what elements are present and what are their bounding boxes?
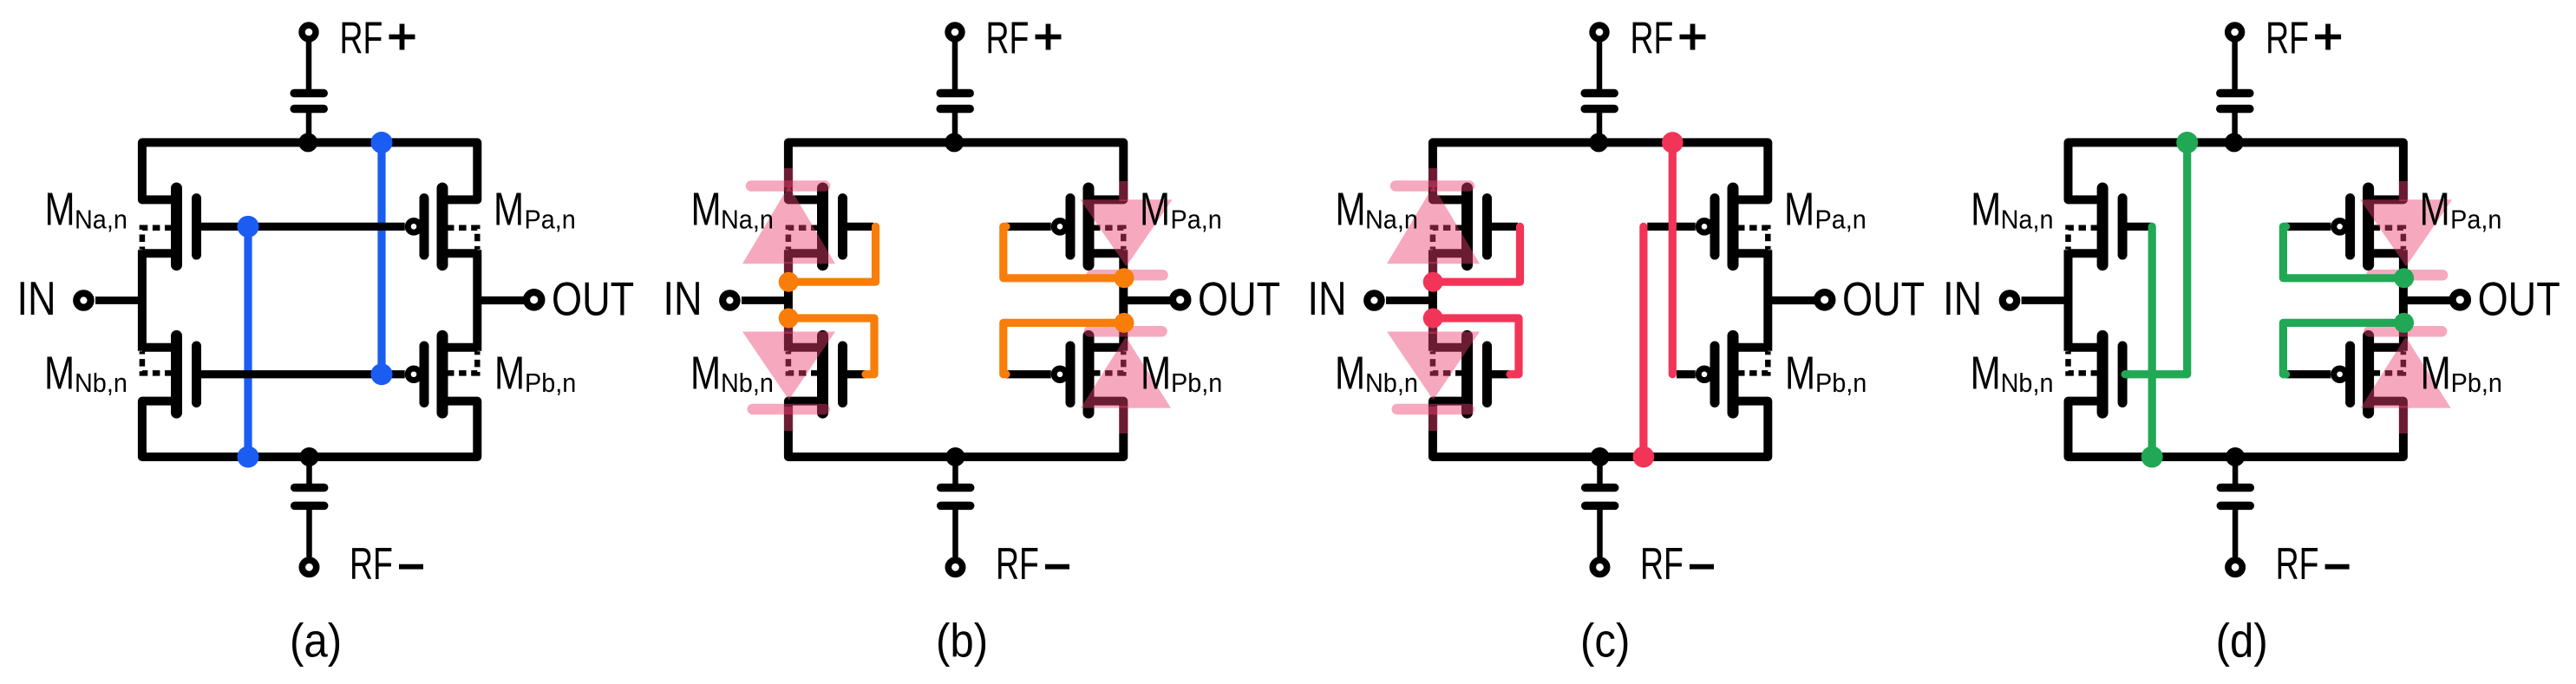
svg-text:RF: RF [350, 538, 393, 590]
svg-text:Pb,n: Pb,n [1171, 368, 1222, 398]
transistor M_Pa,n (PMOS) [2366, 195, 2403, 204]
terminal IN circle [2003, 293, 2017, 307]
capacitor C_RF- bottom lead [952, 510, 958, 557]
svg-text:OUT: OUT [1842, 271, 1925, 325]
capacitor C_RF- bottom lead [306, 510, 312, 557]
diode overlay bar on M_Pa,n [2371, 270, 2442, 281]
node dot red: IN lower [1423, 309, 1443, 329]
diode overlay lead (anode) on M_Na,n [784, 262, 794, 279]
capacitor C_RF- top lead [952, 461, 958, 485]
terminal RF- circle [2228, 560, 2242, 574]
label RF- minus sign [1690, 564, 1714, 570]
diode overlay lead (anode) on M_Pb,n [2399, 406, 2409, 433]
diode overlay bar on M_Na,n [751, 180, 825, 192]
capacitor C_RF+ bottom lead [1597, 113, 1603, 140]
terminal RF- circle [1592, 560, 1606, 574]
diode overlay on M_Nb,n (junction diode, pink) [742, 332, 835, 401]
panel (a) group [17, 12, 635, 668]
wire orange: M_Pb,n gate to OUT node [1004, 322, 1124, 374]
svg-text:RF: RF [986, 12, 1030, 63]
wire left branch middle (Na source to Nb drain through IN node) [138, 250, 147, 350]
wire bottom section (left wire, RF- rail, right wire) [788, 401, 1123, 457]
svg-text:M: M [1971, 184, 2001, 236]
transistor M_Nb,n (NMOS) [788, 343, 826, 352]
wire OUT lead [1120, 296, 1171, 304]
svg-text:RF: RF [996, 538, 1039, 590]
diode overlay lead (anode) on M_Pb,n [1119, 406, 1128, 433]
svg-text:OUT: OUT [2478, 271, 2560, 325]
transistor M_Pa,n (PMOS) [1730, 195, 1768, 204]
diode overlay bar on M_Pb,n [1089, 326, 1162, 337]
node dot blue: RF- rail [238, 446, 259, 468]
capacitor C_RF- plate 2 [1585, 502, 1615, 511]
wire left branch middle (Na source to Nb drain through IN node) [1429, 250, 1437, 350]
diode overlay on M_Pa,n (junction diode, pink) [2360, 199, 2452, 266]
diode overlay lead (anode) on M_Nb,n [1429, 315, 1438, 334]
svg-text:M: M [494, 184, 524, 236]
svg-text:Na,n: Na,n [2001, 205, 2054, 235]
node dot orange: OUT lower [1115, 313, 1134, 333]
capacitor C_RF+ plate 2 [294, 105, 324, 114]
junction dot on RF+ rail [1589, 133, 1608, 152]
label RF- minus sign [2325, 564, 2350, 570]
diode overlay lead (anode) on M_Nb,n [784, 315, 794, 334]
capacitor C_RF+ top lead [2232, 35, 2238, 90]
wire top section (left wire, RF+ rail, right wire) [788, 142, 1123, 199]
capacitor C_RF- top lead [306, 461, 312, 485]
wire left branch middle (Na source to Nb drain through IN node) [2064, 250, 2073, 350]
transistor M_Nb,n (NMOS) [142, 343, 180, 352]
node dot blue: gate line Nb/Pb [371, 363, 393, 385]
transistor M_Na,n (NMOS) [1433, 195, 1470, 204]
capacitor C_RF+ top lead [952, 35, 958, 90]
transistor M_Nb,n (NMOS) [2069, 343, 2106, 352]
node dot orange: IN lower [779, 309, 799, 329]
wire green: M_Na,n gate to RF- rail [2148, 226, 2156, 457]
diode overlay lead (anode) on M_Pa,n [2399, 181, 2409, 201]
svg-text:M: M [2420, 184, 2450, 236]
svg-text:Nb,n: Nb,n [721, 368, 774, 398]
wire left branch middle (Na source to Nb drain through IN node) [784, 250, 793, 350]
svg-text:Na,n: Na,n [75, 205, 127, 235]
terminal RF+ circle [2228, 25, 2242, 39]
svg-text:Nb,n: Nb,n [1365, 368, 1418, 398]
node dot red: RF- rail [1633, 446, 1655, 468]
svg-text:(d): (d) [2216, 615, 2268, 668]
terminal OUT circle [2453, 292, 2468, 307]
node dot blue: RF+ rail [371, 132, 393, 153]
capacitor C_RF+ plate 1 [294, 89, 324, 98]
capacitor C_RF+ plate 1 [2220, 89, 2250, 98]
svg-text:M: M [44, 347, 75, 399]
terminal RF+ circle [302, 25, 316, 39]
capacitor C_RF+ top lead [1597, 35, 1603, 90]
capacitor C_RF- plate 2 [295, 502, 324, 511]
svg-text:M: M [1335, 347, 1365, 399]
terminal OUT circle [1817, 292, 1832, 307]
svg-text:RF: RF [340, 12, 383, 63]
svg-text:M: M [1140, 184, 1170, 236]
svg-text:M: M [1336, 184, 1366, 236]
terminal RF- circle [302, 560, 316, 574]
terminal OUT circle [526, 292, 541, 307]
junction dot on RF- rail [2226, 447, 2245, 466]
wire orange: M_Pa,n gate to OUT node [1004, 226, 1124, 277]
diode overlay bar on M_Nb,n [753, 404, 825, 415]
svg-text:Na,n: Na,n [721, 205, 774, 235]
wire OUT lead [474, 296, 525, 304]
node dot green: RF+ rail [2176, 132, 2198, 153]
svg-text:RF: RF [2276, 538, 2319, 590]
capacitor C_RF- plate 2 [941, 502, 971, 511]
svg-text:Pa,n: Pa,n [2450, 205, 2501, 235]
wire IN lead [95, 296, 146, 304]
diode overlay on M_Nb,n (junction diode, pink) [1387, 332, 1480, 401]
wire right branch middle (Pa source to Pb drain through OUT node) [1119, 250, 1128, 350]
transistor M_Pa,n (PMOS) [1086, 195, 1123, 204]
diode overlay on M_Pb,n (junction diode, pink) [1081, 337, 1171, 408]
svg-text:M: M [1785, 347, 1815, 399]
capacitor C_RF+ plate 1 [1585, 89, 1614, 98]
panel (d) group [1943, 12, 2560, 668]
svg-text:IN: IN [1943, 270, 1982, 324]
svg-text:RF: RF [2265, 12, 2309, 63]
svg-text:IN: IN [17, 270, 56, 324]
transistor M_Na,n (NMOS) [2069, 195, 2106, 204]
capacitor C_RF+ bottom lead [2232, 113, 2238, 140]
wire right branch middle (Pa source to Pb drain through OUT node) [1763, 250, 1772, 350]
svg-text:M: M [2421, 347, 2451, 399]
svg-text:Pb,n: Pb,n [1815, 368, 1867, 398]
svg-text:Pa,n: Pa,n [525, 205, 576, 235]
diode overlay bar on M_Na,n [1396, 180, 1469, 192]
wire OUT lead [2400, 296, 2451, 304]
capacitor C_RF- top lead [1597, 461, 1603, 485]
node dot orange: IN upper [779, 272, 799, 292]
svg-text:M: M [1971, 347, 2001, 399]
diode overlay on M_Pb,n (junction diode, pink) [2361, 337, 2451, 408]
label RF- minus sign [399, 564, 423, 570]
label RF- minus sign [1045, 564, 1069, 570]
node dot orange: OUT upper [1115, 268, 1134, 288]
capacitor C_RF+ plate 2 [940, 105, 970, 114]
svg-text:Nb,n: Nb,n [75, 368, 127, 398]
svg-text:Pb,n: Pb,n [2451, 368, 2502, 398]
diode overlay lead (cathode) on M_Pb,n [1119, 314, 1128, 332]
wire orange: M_Na,n gate to IN node [788, 226, 875, 282]
capacitor C_RF- plate 1 [1585, 484, 1615, 492]
wire top section (left wire, RF+ rail, right wire) [142, 142, 477, 199]
svg-text:RF: RF [1631, 12, 1674, 63]
capacitor C_RF- plate 1 [295, 484, 324, 492]
panel (b) group [664, 12, 1281, 668]
svg-text:IN: IN [1308, 270, 1347, 324]
capacitor C_RF+ bottom lead [306, 113, 312, 140]
junction dot on RF- rail [300, 447, 319, 466]
transistor M_Pb,n (PMOS) [1730, 343, 1768, 352]
transistor M_Pb,n (PMOS) [2366, 343, 2403, 352]
node dot red: RF+ rail [1662, 132, 1684, 153]
diode overlay on M_Pa,n (junction diode, pink) [1081, 199, 1173, 266]
diode overlay lead (cathode) on M_Nb,n [784, 407, 794, 431]
wire green: RF+ rail to M_Nb,n gate [2125, 142, 2187, 374]
diode overlay lead (anode) on M_Pa,n [1119, 181, 1128, 201]
capacitor C_RF+ plate 1 [940, 89, 970, 98]
diode overlay lead (cathode) on M_Pb,n [2399, 314, 2409, 332]
wire IN lead [742, 296, 792, 304]
panel (c) group [1308, 12, 1925, 668]
label RF+ plus sign [389, 35, 415, 40]
wire orange: M_Nb,n gate to IN node [788, 318, 874, 375]
capacitor C_RF- plate 2 [2220, 502, 2250, 511]
wire right branch middle (Pa source to Pb drain through OUT node) [2399, 250, 2408, 350]
capacitor C_RF- bottom lead [2233, 510, 2239, 557]
svg-text:M: M [45, 184, 75, 236]
wire red: RF+ rail to M_Pb,n gate [1669, 142, 1677, 374]
diode overlay lead (cathode) on M_Nb,n [1429, 407, 1438, 431]
svg-text:IN: IN [664, 270, 703, 324]
svg-text:(b): (b) [936, 615, 988, 668]
terminal RF+ circle [948, 25, 962, 39]
terminal RF- circle [948, 560, 962, 574]
node dot green: OUT lower [2394, 313, 2414, 333]
diode overlay lead (anode) on M_Na,n [1429, 262, 1438, 279]
junction dot on RF+ rail [945, 133, 964, 152]
junction dot on RF- rail [946, 447, 965, 466]
diode overlay on M_Na,n (junction diode, pink) [742, 186, 835, 264]
terminal IN circle [76, 293, 90, 307]
capacitor C_RF+ plate 2 [1585, 105, 1614, 114]
diode overlay lead (cathode) on M_Na,n [784, 168, 794, 187]
svg-text:OUT: OUT [1198, 271, 1280, 325]
terminal OUT circle [1173, 292, 1187, 307]
wire green: M_Pb,n gate to OUT node [2283, 322, 2403, 374]
terminal IN circle [722, 293, 736, 307]
wire top section (left wire, RF+ rail, right wire) [2069, 142, 2403, 199]
svg-text:Na,n: Na,n [1365, 205, 1418, 235]
svg-text:M: M [691, 184, 722, 236]
svg-text:Pa,n: Pa,n [1815, 205, 1867, 235]
wire top section (left wire, RF+ rail, right wire) [1433, 142, 1768, 199]
wire right branch middle (Pa source to Pb drain through OUT node) [473, 250, 481, 350]
label RF+ plus sign [1680, 35, 1706, 40]
diode overlay bar on M_Pb,n [2370, 326, 2442, 337]
capacitor C_RF- plate 1 [2220, 484, 2250, 492]
wire bottom section (left wire, RF- rail, right wire) [142, 401, 477, 457]
diode overlay lead (cathode) on M_Pa,n [1119, 273, 1128, 287]
svg-text:M: M [1141, 347, 1171, 399]
wire IN lead [2022, 296, 2072, 304]
svg-text:Pa,n: Pa,n [1171, 205, 1222, 235]
transistor M_Na,n (NMOS) [142, 195, 180, 204]
node dot blue: gate line Na/Pa [238, 216, 259, 238]
diode overlay bar on M_Pa,n [1092, 270, 1163, 281]
wire cross-couple blue: RF+ rail to node Nb/Pb gate [377, 142, 385, 374]
svg-text:RF: RF [1640, 538, 1684, 590]
label RF+ plus sign [2315, 35, 2341, 40]
wire bottom section (left wire, RF- rail, right wire) [2069, 401, 2403, 457]
node dot green: OUT upper [2394, 268, 2414, 288]
node dot red: IN upper [1423, 272, 1443, 292]
wire bottom section (left wire, RF- rail, right wire) [1433, 401, 1768, 457]
wire red: M_Pa,n gate to RF- rail [1639, 226, 1647, 457]
svg-text:M: M [1784, 184, 1814, 236]
terminal RF+ circle [1592, 25, 1606, 39]
capacitor C_RF- top lead [2233, 461, 2239, 485]
svg-text:M: M [690, 347, 721, 399]
transistor M_Pb,n (PMOS) [1086, 343, 1123, 352]
diode overlay bar on M_Nb,n [1397, 404, 1469, 415]
terminal IN circle [1367, 293, 1381, 307]
transistor M_Pb,n (PMOS, gate shared with M_Nb,n) [440, 343, 477, 352]
svg-text:OUT: OUT [552, 271, 634, 325]
capacitor C_RF- bottom lead [1597, 510, 1603, 557]
capacitor C_RF+ top lead [306, 35, 312, 90]
wire red: M_Na,n gate to IN node [1433, 226, 1520, 282]
transistor M_Nb,n (NMOS) [1433, 343, 1470, 352]
junction dot on RF- rail [1591, 447, 1610, 466]
svg-text:(c): (c) [1580, 615, 1630, 668]
wire red: M_Nb,n gate to IN node [1433, 318, 1519, 375]
wire IN lead [1386, 296, 1436, 304]
svg-text:Nb,n: Nb,n [2001, 368, 2054, 398]
wire cross-couple blue: node Na/Pa gate to RF- rail [244, 226, 252, 457]
label RF+ plus sign [1036, 35, 1062, 40]
junction dot on RF+ rail [2225, 133, 2244, 152]
diode overlay lead (cathode) on M_Pa,n [2399, 273, 2409, 287]
node dot green: RF- rail [2141, 446, 2163, 468]
wire green: M_Pa,n gate to OUT node [2283, 226, 2403, 277]
transistor M_Na,n (NMOS) [788, 195, 826, 204]
svg-text:(a): (a) [290, 615, 342, 668]
capacitor C_RF- plate 1 [941, 484, 971, 492]
svg-text:Pb,n: Pb,n [525, 368, 576, 398]
capacitor C_RF+ bottom lead [952, 113, 958, 140]
wire OUT lead [1764, 296, 1815, 304]
junction dot on RF+ rail [298, 133, 317, 152]
capacitor C_RF+ plate 2 [2220, 105, 2250, 114]
diode overlay on M_Na,n (junction diode, pink) [1387, 186, 1480, 264]
transistor M_Pa,n (PMOS, gate shared with M_Na,n) [440, 195, 477, 204]
svg-text:M: M [494, 347, 525, 399]
diode overlay lead (cathode) on M_Na,n [1429, 168, 1438, 187]
